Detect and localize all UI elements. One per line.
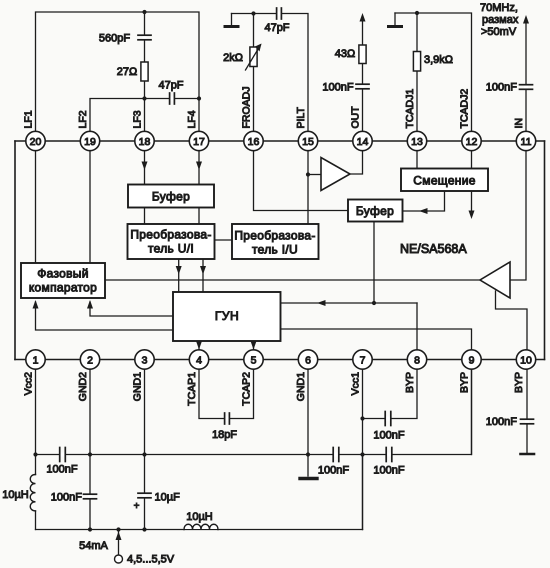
node junction rail pin2: [88, 527, 92, 531]
arrow into VCO: [317, 300, 326, 306]
capacitor 100nF IN: [524, 85, 528, 90]
capacitor 10µF: [143, 493, 147, 498]
svg-text:8: 8: [414, 354, 420, 366]
capacitor 100nF 7-9: [386, 453, 392, 457]
pin 19 circle: [80, 131, 99, 150]
wire Vcc2 riser: [35, 360, 37, 475]
wire BYP9 riser: [471, 360, 473, 455]
svg-text:54mA: 54mA: [79, 540, 108, 552]
node junction PILT/amp: [306, 172, 310, 176]
svg-text:100nF: 100nF: [373, 465, 404, 477]
arrow VCO-TCAP2: [251, 341, 257, 350]
capacitor 18pF plates: [225, 417, 230, 421]
wire LF1-LF4 top loop: [36, 12, 200, 141]
ground G1: [225, 25, 238, 28]
ground G1 stub: [231, 14, 233, 27]
wire FROADJ chain: [232, 14, 309, 142]
arrow U/I-VCO right: [200, 266, 206, 275]
svg-text:13: 13: [411, 136, 423, 148]
ground G2: [389, 25, 402, 28]
svg-text:560pF: 560pF: [99, 33, 130, 45]
arrow bias-buffer2: [419, 208, 428, 214]
svg-text:100nF: 100nF: [486, 416, 517, 428]
svg-text:100nF: 100nF: [318, 465, 349, 477]
svg-text:11: 11: [521, 136, 532, 148]
svg-text:5: 5: [251, 354, 257, 366]
svg-text:GND2: GND2: [77, 372, 89, 401]
IC body top edge: [15, 140, 545, 142]
wire U/I to VCO left: [178, 259, 180, 292]
wire BYP10 to limiter: [496, 291, 528, 360]
svg-text:10µH: 10µH: [186, 511, 213, 523]
svg-text:LF1: LF1: [23, 110, 35, 128]
pin 11 circle: [516, 131, 535, 150]
wire amp input: [308, 174, 321, 176]
svg-text:Vcc1: Vcc1: [350, 372, 362, 396]
block U/I converter: [128, 224, 215, 259]
node junction row2 pin2: [88, 452, 92, 456]
svg-text:BYP: BYP: [513, 372, 525, 393]
wire U/I to VCO right: [202, 259, 204, 292]
svg-text:10µH: 10µH: [2, 489, 29, 501]
pin 5 circle: [244, 350, 263, 369]
capacitor 100nF BYP10: [525, 419, 529, 424]
wire FROADJ riser: [253, 14, 255, 142]
wire Vcc1 riser: [362, 360, 364, 530]
block VCO: [173, 292, 281, 341]
wire U/I to I/U link: [215, 239, 233, 241]
resistor 3,9kΩ: [413, 52, 420, 72]
resistor 43Ω: [359, 45, 366, 64]
svg-text:TCADJ2: TCADJ2: [459, 89, 471, 129]
wire LF1 to phase comparator: [35, 141, 37, 263]
wire TCADJ2 to bias: [471, 141, 473, 169]
block bias: [401, 169, 488, 192]
svg-text:27Ω: 27Ω: [117, 66, 137, 78]
pin 2 circle: [80, 350, 99, 369]
svg-text:9: 9: [469, 354, 475, 366]
wire bias to buffer2: [403, 191, 445, 211]
svg-text:4: 4: [196, 354, 202, 366]
pin 16 circle: [244, 131, 263, 150]
wire BYP8 internal: [416, 303, 418, 360]
wire VCO to phase comparator B: [36, 302, 174, 330]
wire TCADJ1 riser: [416, 13, 418, 141]
supply rail: [36, 529, 363, 531]
arrow LF3 buffer: [142, 162, 148, 171]
svg-text:Буфер: Буфер: [356, 204, 394, 218]
wire buffer to U/I left: [144, 208, 146, 225]
svg-text:43Ω: 43Ω: [335, 48, 355, 60]
wire LF2 riser: [90, 99, 199, 142]
wire LF3 riser: [144, 12, 146, 141]
svg-text:OUT: OUT: [350, 106, 362, 129]
pin 17 circle: [189, 131, 208, 150]
wire FROADJ to buffer2: [254, 141, 349, 211]
pin 1 circle: [26, 350, 45, 369]
svg-text:тель I/U: тель I/U: [252, 243, 298, 257]
svg-text:2: 2: [87, 354, 93, 366]
svg-text:16: 16: [248, 136, 260, 148]
svg-text:18: 18: [139, 136, 151, 148]
svg-text:47pF: 47pF: [158, 80, 183, 92]
svg-text:GND1: GND1: [295, 372, 307, 401]
svg-text:ГУН: ГУН: [215, 309, 239, 323]
capacitor 100nF 6-7: [333, 453, 339, 457]
wire buffer2 to VCO line: [281, 222, 374, 304]
svg-text:TCAP2: TCAP2: [241, 372, 253, 406]
wire amp output to OUT: [350, 141, 363, 174]
svg-text:TCADJ1: TCADJ1: [404, 89, 416, 129]
svg-text:размах: размах: [482, 14, 519, 26]
svg-text:20: 20: [30, 136, 42, 148]
svg-text:100nF: 100nF: [51, 492, 82, 504]
op-amp A2 limiter: [480, 262, 510, 298]
svg-text:Преобразова-: Преобразова-: [234, 229, 315, 243]
svg-text:12: 12: [466, 136, 478, 148]
svg-text:6: 6: [305, 354, 311, 366]
wire VCO to phase comparator A: [90, 302, 173, 316]
svg-text:70MHz,: 70MHz,: [480, 2, 518, 14]
wire BYP9 internal: [281, 329, 472, 360]
pin 15 circle: [298, 131, 317, 150]
wire IN to limiter: [510, 141, 526, 280]
arrow phase comp A: [87, 300, 93, 309]
node junction TCADJ1 top: [415, 11, 419, 15]
node junction 560pF top: [142, 10, 146, 14]
svg-text:100nF: 100nF: [486, 82, 517, 94]
pin 18 circle: [135, 131, 154, 150]
node junction 2k top: [251, 11, 255, 15]
block buffer U1: [128, 185, 214, 208]
node junction rail pin3: [142, 527, 146, 531]
svg-text:19: 19: [84, 136, 96, 148]
svg-text:FROADJ: FROADJ: [241, 87, 253, 129]
svg-text:LF2: LF2: [77, 110, 89, 128]
wire limiter output to phase comparator: [105, 279, 480, 281]
wire LF3 to buffer: [144, 141, 146, 185]
wire LF4 to buffer: [198, 141, 200, 185]
svg-text:Смещение: Смещение: [413, 174, 475, 188]
svg-text:Фазовый: Фазовый: [37, 267, 89, 281]
svg-text:10: 10: [520, 354, 532, 366]
svg-text:100nF: 100nF: [373, 430, 404, 442]
wire bias down arrow: [471, 191, 473, 214]
svg-text:LF4: LF4: [186, 110, 198, 128]
svg-text:7: 7: [360, 354, 366, 366]
svg-text:LF3: LF3: [132, 110, 144, 128]
wire Vcc1-BYP8 row: [363, 360, 418, 419]
wire GND2 riser: [89, 360, 91, 530]
arrow phase comp B: [33, 300, 39, 309]
svg-text:NE/SA568A: NE/SA568A: [400, 242, 467, 256]
svg-text:+: +: [134, 501, 140, 512]
svg-text:18pF: 18pF: [212, 429, 237, 441]
wire BYP8 horiz: [374, 302, 417, 304]
wire LF2 to phase comparator: [89, 141, 91, 263]
pin 9 circle: [462, 350, 481, 369]
arrow supply current: [116, 532, 122, 541]
wire TCADJ ground rail: [395, 13, 472, 141]
node junction row2 pin6: [306, 452, 310, 456]
block buffer U2: [348, 200, 403, 222]
svg-text:3: 3: [142, 354, 148, 366]
pin 8 circle: [407, 350, 426, 369]
wire GND1-3 riser: [144, 360, 146, 530]
svg-text:1: 1: [33, 354, 39, 366]
arrow VCO-TCAP1: [196, 341, 202, 350]
svg-text:>50mV: >50mV: [481, 26, 517, 38]
capacitor 18pF: [199, 360, 254, 419]
wire VCO to TCAP1: [198, 341, 200, 360]
inductor 10µH horizontal: [183, 524, 219, 529]
pin 14 circle: [353, 131, 372, 150]
pin 13 circle: [407, 131, 426, 150]
node junction Vcc1 row1: [360, 416, 364, 420]
pin 10 circle: [516, 350, 535, 369]
arrow OUT supply: [360, 13, 366, 22]
inductor 10µH vertical: [30, 475, 35, 511]
wire BYP10 riser: [526, 360, 528, 454]
svg-text:BYP: BYP: [459, 372, 471, 393]
svg-text:17: 17: [193, 136, 205, 148]
svg-text:15: 15: [302, 136, 314, 148]
svg-text:тель U/I: тель U/I: [148, 242, 194, 256]
svg-text:100nF: 100nF: [322, 82, 353, 94]
svg-text:Преобразова-: Преобразова-: [130, 228, 211, 242]
svg-text:14: 14: [357, 136, 369, 148]
block I/U converter: [232, 224, 319, 259]
IC body right edge: [544, 141, 546, 360]
pin 4 circle: [189, 350, 208, 369]
wire IN riser: [525, 24, 527, 141]
svg-text:IN: IN: [513, 118, 525, 129]
capacitor 100nF 7-8: [385, 417, 391, 421]
capacitor 100nF OUT: [361, 84, 365, 89]
pin 12 circle: [462, 131, 481, 150]
capacitor 100nF row2-left: [60, 453, 66, 457]
block phase comparator: [21, 263, 105, 298]
svg-text:GND1: GND1: [132, 372, 144, 401]
svg-text:100nF: 100nF: [46, 464, 77, 476]
ground G3: [300, 477, 317, 480]
ground bar BYP10: [521, 453, 535, 456]
pin 3 circle: [135, 350, 154, 369]
node junction row2 pin1: [33, 452, 37, 456]
node junction LF3/47pF: [142, 96, 146, 100]
svg-text:10µF: 10µF: [155, 492, 181, 504]
IC body left edge: [14, 141, 16, 360]
svg-text:TCAP1: TCAP1: [186, 372, 198, 406]
wire bypass row2: [36, 360, 472, 455]
svg-text:47pF: 47pF: [264, 22, 289, 34]
wire buffer to U/I right: [198, 208, 200, 225]
potentiometer 2kΩ: [250, 47, 257, 67]
arrow IN input: [523, 15, 529, 24]
ground G2 stub: [394, 13, 396, 26]
svg-text:компаратор: компаратор: [29, 281, 97, 295]
svg-text:Буфер: Буфер: [152, 190, 190, 204]
wire rail to Vcc1: [362, 455, 364, 530]
svg-text:4,5...5,5V: 4,5...5,5V: [127, 554, 175, 566]
svg-text:Vcc2: Vcc2: [23, 372, 35, 396]
wire PILT to I/U converter: [307, 141, 309, 224]
wire supply tap: [118, 531, 120, 555]
wire TCADJ1 to bias: [416, 141, 418, 169]
arrow LF4 buffer: [196, 162, 202, 171]
svg-text:PILT: PILT: [295, 107, 307, 129]
svg-text:2kΩ: 2kΩ: [223, 52, 243, 64]
arrow bias down: [469, 211, 475, 220]
wire OUT riser: [362, 22, 364, 141]
pin 20 circle: [26, 131, 45, 150]
node junction row2 pin7: [360, 452, 364, 456]
op-amp A1 output buffer: [321, 158, 350, 191]
node junction rail supply: [116, 527, 120, 531]
wire Vcc2 to rail: [35, 511, 37, 530]
node junction row2 pin3: [142, 452, 146, 456]
wire VCO to TCAP2: [253, 341, 255, 360]
svg-text:BYP: BYP: [404, 372, 416, 393]
wire GND1-6 riser: [307, 360, 309, 477]
capacitor 100nF GND2: [88, 494, 92, 499]
capacitor 47pF LF3-LF4: [170, 97, 175, 101]
resistor 27Ω: [141, 62, 148, 81]
node junction buffer2/BYP8: [372, 301, 376, 305]
capacitor 560pF: [143, 35, 147, 40]
pin 6 circle: [298, 350, 317, 369]
svg-text:3,9kΩ: 3,9kΩ: [424, 54, 453, 66]
IC body bottom edge: [15, 359, 545, 361]
node junction LF4/47pF: [197, 96, 201, 100]
terminal supply: [115, 555, 123, 563]
pin 7 circle: [353, 350, 372, 369]
arrow U/I-VCO left: [176, 266, 182, 275]
capacitor 47pF PILT: [277, 12, 282, 16]
